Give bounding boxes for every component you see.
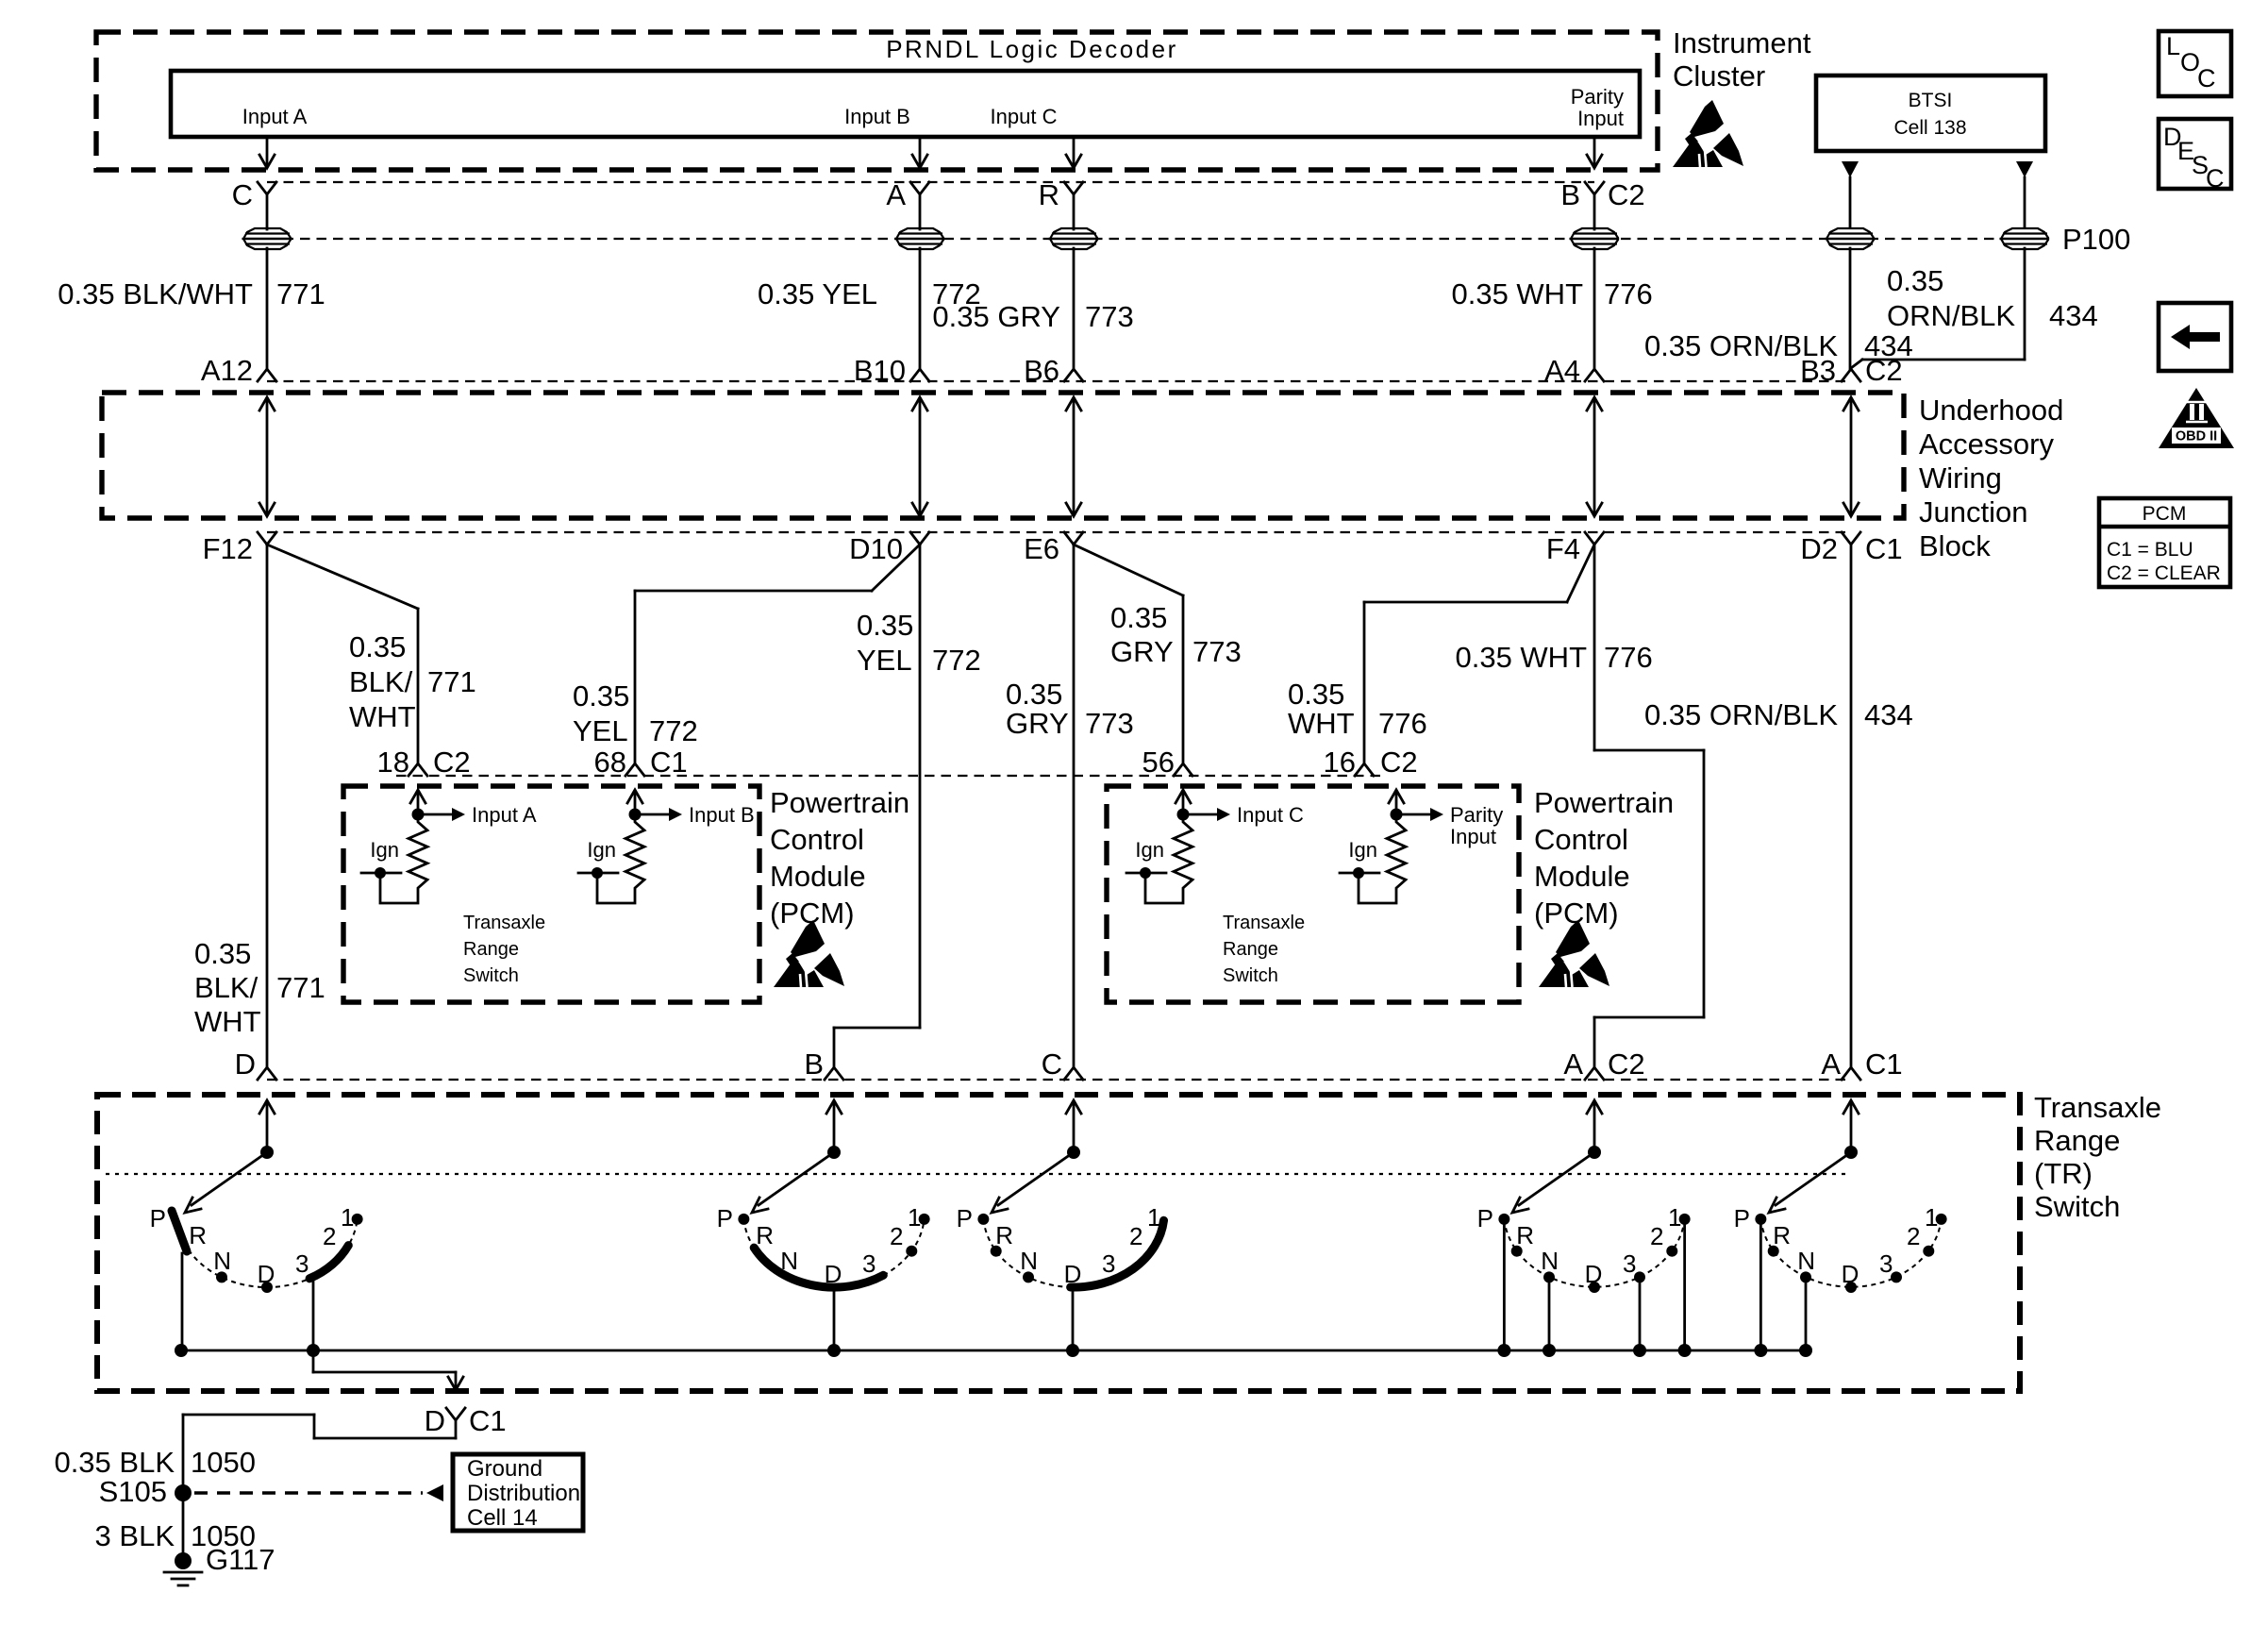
svg-text:0.35: 0.35 [1006,678,1062,711]
svg-text:R: R [1773,1221,1791,1249]
svg-text:A4: A4 [1544,354,1580,387]
svg-text:773: 773 [1085,707,1134,740]
svg-text:776: 776 [1604,277,1653,310]
svg-text:Cluster: Cluster [1673,59,1765,92]
svg-text:Switch: Switch [2034,1190,2120,1223]
svg-text:WHT: WHT [194,1005,261,1038]
svg-text:C: C [232,178,253,211]
svg-text:Instrument: Instrument [1673,26,1811,59]
svg-text:Ign: Ign [370,838,399,862]
svg-text:Block: Block [1919,529,1991,562]
svg-text:0.35: 0.35 [1288,678,1344,711]
svg-text:Module: Module [1534,860,1630,893]
svg-text:0.35 BLK: 0.35 BLK [54,1446,175,1479]
svg-text:2: 2 [1907,1222,1920,1250]
svg-text:0.35 GRY: 0.35 GRY [932,300,1060,333]
svg-text:3: 3 [1623,1249,1636,1278]
svg-text:A: A [1821,1048,1841,1081]
svg-text:773: 773 [1192,635,1242,668]
svg-text:P: P [1477,1204,1493,1232]
svg-text:N: N [1797,1247,1815,1275]
svg-text:C: C [2197,64,2216,92]
svg-text:0.35 WHT: 0.35 WHT [1455,641,1587,674]
svg-text:Range: Range [2034,1124,2120,1157]
svg-text:0.35: 0.35 [573,679,629,712]
svg-text:Transaxle: Transaxle [463,913,545,933]
svg-text:434: 434 [2049,299,2098,332]
svg-text:Wiring: Wiring [1919,461,2002,495]
svg-text:Junction: Junction [1919,495,2027,528]
svg-text:PRNDL Logic Decoder: PRNDL Logic Decoder [886,35,1178,63]
svg-text:16: 16 [1324,746,1356,779]
svg-text:GRY: GRY [1110,635,1174,668]
svg-text:C2 = CLEAR: C2 = CLEAR [2107,562,2221,584]
svg-text:YEL: YEL [857,644,912,677]
svg-text:P100: P100 [2062,223,2130,256]
svg-text:B3: B3 [1800,354,1836,387]
svg-text:Distribution: Distribution [467,1481,580,1506]
svg-text:G117: G117 [206,1543,275,1576]
svg-text:2: 2 [323,1222,336,1250]
svg-text:771: 771 [276,277,325,310]
svg-text:3: 3 [862,1249,876,1278]
svg-text:3: 3 [295,1249,309,1278]
svg-text:P: P [717,1204,733,1232]
svg-text:C2: C2 [1608,1048,1645,1081]
svg-text:0.35: 0.35 [857,609,913,642]
svg-text:2: 2 [1650,1222,1663,1250]
svg-text:Switch: Switch [463,965,519,986]
svg-text:Input B: Input B [844,105,910,128]
svg-text:Input C: Input C [991,105,1058,128]
svg-text:C2: C2 [1865,354,1903,387]
svg-text:R: R [1516,1221,1534,1249]
svg-text:776: 776 [1604,641,1653,674]
svg-text:Powertrain: Powertrain [1534,786,1674,819]
svg-text:D2: D2 [1800,532,1838,565]
svg-text:D: D [425,1404,445,1437]
svg-text:C1: C1 [650,746,688,779]
svg-text:Ign: Ign [1348,838,1377,862]
svg-text:Control: Control [1534,823,1628,856]
svg-text:Underhood: Underhood [1919,394,2063,427]
svg-text:Cell 14: Cell 14 [467,1505,538,1531]
svg-text:Input: Input [1577,107,1624,130]
svg-text:3: 3 [1102,1249,1115,1278]
svg-text:PCM: PCM [2143,503,2187,525]
svg-text:D: D [235,1048,256,1081]
svg-text:GRY: GRY [1006,707,1069,740]
svg-text:Accessory: Accessory [1919,427,2054,461]
svg-text:Input A: Input A [472,803,537,827]
svg-text:C: C [1042,1048,1062,1081]
svg-text:Input B: Input B [689,803,755,827]
svg-text:Powertrain: Powertrain [770,786,909,819]
svg-text:772: 772 [932,644,981,677]
svg-text:A: A [1563,1048,1583,1081]
svg-text:2: 2 [1129,1222,1142,1250]
svg-text:18: 18 [377,746,409,779]
svg-text:0.35: 0.35 [194,937,251,970]
svg-text:B6: B6 [1024,354,1059,387]
svg-text:N: N [1541,1247,1559,1275]
svg-text:0.35: 0.35 [1110,601,1167,634]
svg-text:C1 = BLU: C1 = BLU [2107,539,2193,561]
svg-text:F12: F12 [203,532,253,565]
svg-text:YEL: YEL [573,714,628,747]
svg-text:Input A: Input A [242,105,308,128]
svg-text:N: N [213,1247,231,1275]
svg-text:R: R [995,1221,1013,1249]
svg-text:C1: C1 [1865,532,1903,565]
svg-text:B: B [1560,178,1580,211]
svg-text:0.35: 0.35 [1887,264,1943,297]
svg-text:Range: Range [1223,939,1278,960]
svg-text:771: 771 [427,665,476,698]
svg-text:C2: C2 [433,746,471,779]
svg-text:WHT: WHT [1288,707,1355,740]
svg-text:771: 771 [276,971,325,1004]
svg-text:E6: E6 [1024,532,1059,565]
svg-text:C2: C2 [1380,746,1418,779]
svg-text:C2: C2 [1608,178,1645,211]
svg-text:0.35 YEL: 0.35 YEL [758,277,877,310]
svg-text:776: 776 [1378,707,1427,740]
svg-text:C1: C1 [1865,1048,1903,1081]
svg-text:68: 68 [594,746,626,779]
svg-text:0.35: 0.35 [349,630,406,663]
svg-text:Control: Control [770,823,864,856]
svg-text:434: 434 [1864,698,1913,731]
svg-text:R: R [756,1221,774,1249]
svg-text:Ign: Ign [587,838,616,862]
svg-text:0.35 BLK/WHT: 0.35 BLK/WHT [58,277,253,310]
svg-text:B: B [804,1048,824,1081]
svg-text:B10: B10 [854,354,906,387]
svg-text:BLK/: BLK/ [194,971,258,1004]
svg-text:Transaxle: Transaxle [1223,913,1305,933]
svg-text:1050: 1050 [191,1446,256,1479]
svg-text:Ground: Ground [467,1456,542,1482]
svg-text:772: 772 [649,714,698,747]
svg-text:R: R [189,1221,207,1249]
svg-text:ORN/BLK: ORN/BLK [1887,299,2015,332]
svg-text:773: 773 [1085,300,1134,333]
svg-text:WHT: WHT [349,700,416,733]
svg-text:Input C: Input C [1237,803,1304,827]
svg-text:P: P [957,1204,973,1232]
svg-text:Input: Input [1450,825,1496,848]
svg-text:Parity: Parity [1571,85,1624,109]
svg-text:P: P [1734,1204,1750,1232]
svg-text:S105: S105 [99,1475,167,1508]
svg-text:N: N [1020,1247,1038,1275]
svg-text:Parity: Parity [1450,803,1503,827]
svg-text:(TR): (TR) [2034,1157,2093,1190]
svg-text:D10: D10 [849,532,903,565]
svg-text:P: P [150,1204,166,1232]
svg-text:Range: Range [463,939,519,960]
svg-text:F4: F4 [1546,532,1580,565]
svg-text:Module: Module [770,860,866,893]
svg-text:3 BLK: 3 BLK [95,1519,175,1552]
svg-text:Switch: Switch [1223,965,1278,986]
svg-text:C1: C1 [469,1404,507,1437]
svg-text:BTSI: BTSI [1909,90,1953,111]
svg-text:L: L [2166,32,2180,60]
svg-text:OBD II: OBD II [2176,429,2217,444]
svg-text:BLK/: BLK/ [349,665,413,698]
svg-text:0.35 ORN/BLK: 0.35 ORN/BLK [1644,698,1838,731]
svg-text:3: 3 [1879,1249,1893,1278]
svg-text:0.35 WHT: 0.35 WHT [1451,277,1583,310]
svg-text:Cell 138: Cell 138 [1893,117,1966,139]
svg-text:Ign: Ign [1135,838,1164,862]
svg-text:A12: A12 [201,354,253,387]
svg-text:C: C [2206,164,2225,193]
svg-text:Transaxle: Transaxle [2034,1091,2161,1124]
svg-text:A: A [886,178,906,211]
svg-text:R: R [1039,178,1059,211]
svg-text:2: 2 [890,1222,903,1250]
svg-text:56: 56 [1142,746,1175,779]
